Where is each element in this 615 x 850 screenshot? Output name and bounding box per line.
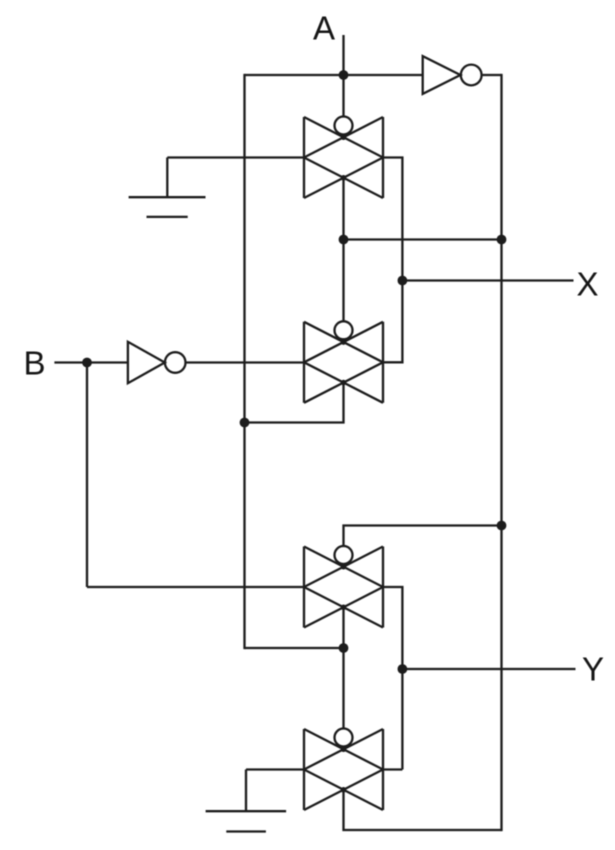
ground GND1 stub — [166, 158, 168, 198]
svg-text:Y: Y — [582, 651, 604, 688]
wire A input vertical — [342, 35, 344, 117]
ground GND1 wire — [167, 156, 304, 158]
wire TG1 right to X rail — [383, 158, 402, 363]
wire Abar row horizontal — [344, 238, 502, 240]
wire TG3 right to Y rail — [383, 587, 402, 770]
wire B drop vertical — [86, 363, 88, 588]
wire TG4 bottom to right rail — [344, 790, 502, 830]
transmission gate TG3 pmos bubble — [335, 546, 353, 564]
junction dot right rail Abar — [497, 235, 507, 245]
wire B input horizontal — [54, 361, 127, 363]
ground GND1 bar1 — [129, 196, 206, 198]
junction A node dot — [339, 70, 349, 80]
ground GND2 stub — [245, 770, 247, 812]
wire B to TG3 input — [87, 586, 304, 588]
wire U1 output to right rail — [482, 74, 502, 76]
wire TG2 bottom control — [245, 383, 344, 423]
transmission gate TG1 pmos bubble — [335, 117, 353, 135]
transmission gate TG2 pmos bubble — [335, 321, 353, 339]
wire TG1 bottom control — [342, 178, 344, 240]
ground GND2 bar1 — [206, 810, 287, 812]
transmission gate TG4 body — [304, 729, 383, 810]
wire TG3 bottom to TG4 top control — [342, 607, 344, 728]
svg-text:B: B — [23, 345, 45, 382]
inverter U1 output bubble — [461, 65, 482, 86]
ground GND2 wire — [246, 768, 304, 770]
junction dot B node — [82, 358, 92, 368]
wire TG3 top control from right rail — [344, 526, 502, 547]
junction dot X node — [398, 276, 408, 286]
wire U2 output to TG2 — [186, 361, 305, 363]
junction dot mid Abar — [339, 235, 349, 245]
wire TG4 right to Y rail — [383, 768, 402, 770]
op-amp inverter U1 triangle — [423, 56, 461, 94]
wire output Y horizontal — [402, 668, 575, 670]
wire right rail Abar vertical — [500, 74, 502, 831]
wire left rail to A node lower — [245, 647, 344, 649]
op-amp inverter U2 triangle — [128, 342, 165, 383]
transmission gate TG2 body — [304, 322, 383, 403]
svg-text:X: X — [576, 266, 598, 303]
transmission gate TG3 body — [304, 547, 383, 628]
transmission gate TG1 body — [304, 117, 383, 198]
junction dot left rail TG2 control — [240, 418, 250, 428]
wire TG2 top control from Abar — [342, 240, 344, 322]
transmission gate TG4 pmos bubble — [335, 729, 353, 747]
ground GND2 bar2 — [226, 830, 266, 832]
inverter U2 output bubble — [165, 352, 186, 373]
junction dot right rail TG3 control — [497, 521, 507, 531]
svg-text:A: A — [313, 10, 335, 47]
wire left rail A vertical — [243, 74, 245, 649]
junction dot lower A node — [339, 643, 349, 653]
ground GND1 bar2 — [147, 216, 188, 218]
wire output X horizontal — [402, 279, 573, 281]
wire A row horizontal to inverter U1 input — [245, 74, 423, 76]
junction dot Y node — [398, 664, 408, 674]
